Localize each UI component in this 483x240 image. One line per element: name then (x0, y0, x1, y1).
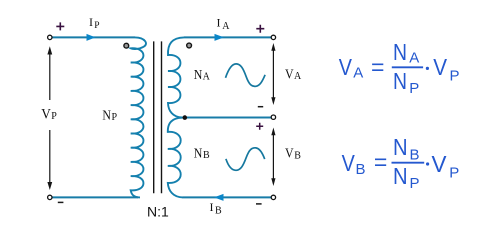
junction dot centre-tap (183, 115, 188, 120)
svg-text:N: N (102, 109, 111, 124)
svg-text:V: V (342, 150, 356, 176)
svg-text:P: P (409, 80, 419, 97)
svg-text:B: B (203, 150, 210, 161)
terminal bottom-left (48, 195, 52, 199)
arrowhead Ib (214, 194, 224, 201)
wire top-left primary lead (53, 36, 136, 38)
polarity dot primary (124, 43, 129, 48)
formula Vb (342, 134, 460, 192)
svg-text:I: I (210, 200, 214, 214)
svg-text:V: V (433, 54, 447, 80)
core line 2 (161, 41, 163, 193)
plus sign top-right (256, 25, 264, 33)
svg-text:N: N (393, 163, 408, 189)
Vb dimension arrow (272, 131, 274, 183)
sine wave B (226, 148, 265, 170)
wire centre-tap lead (182, 117, 272, 119)
formula Va (339, 39, 460, 97)
svg-text:A: A (222, 21, 230, 32)
svg-text:V: V (285, 147, 294, 162)
svg-text:B: B (215, 206, 222, 217)
svg-text:=: = (371, 54, 384, 80)
svg-text:P: P (449, 165, 459, 182)
secondary winding Na (168, 37, 184, 117)
sine wave A (226, 64, 266, 86)
terminal centre-tap (271, 115, 275, 119)
svg-text:V: V (339, 54, 353, 80)
core line 1 (153, 41, 155, 193)
arrowhead Ip (87, 34, 96, 41)
terminal bottom-right (271, 195, 275, 199)
wire bottom-right secondary lead (183, 196, 272, 198)
minus above centre-tap (258, 106, 263, 108)
svg-text:N:1: N:1 (147, 204, 169, 220)
svg-text:P: P (94, 21, 99, 31)
svg-text:A: A (294, 71, 302, 82)
svg-text:A: A (353, 65, 363, 82)
primary winding Np (131, 37, 146, 197)
Va dimension arrow (272, 47, 274, 102)
svg-text:N: N (393, 39, 407, 65)
wire top-right secondary lead (184, 36, 271, 38)
svg-text:V: V (432, 151, 448, 177)
svg-text:I: I (217, 16, 221, 30)
secondary winding Nb (168, 118, 183, 198)
svg-text:P: P (450, 68, 460, 85)
svg-text:B: B (410, 147, 420, 164)
svg-text:N: N (194, 147, 203, 162)
svg-text:V: V (285, 68, 294, 83)
arrowhead Ia (215, 34, 225, 41)
svg-text:N: N (393, 68, 407, 94)
svg-text:I: I (89, 15, 93, 29)
svg-text:B: B (294, 151, 301, 162)
svg-text:B: B (356, 161, 366, 178)
svg-text:=: = (374, 149, 387, 175)
terminal top-left (48, 35, 52, 39)
minus bottom-left (58, 201, 64, 203)
wire bottom-left primary lead (53, 196, 139, 198)
svg-text:N: N (194, 68, 203, 83)
Vp dimension arrow lower (49, 130, 51, 186)
svg-text:V: V (41, 107, 51, 123)
plus below centre-tap (256, 123, 263, 130)
terminal top-right (271, 35, 275, 39)
svg-text:N: N (393, 134, 408, 160)
svg-text:A: A (409, 50, 419, 67)
Vp dimension arrow upper (49, 52, 51, 100)
svg-text:P: P (410, 175, 420, 192)
svg-text:P: P (112, 112, 118, 123)
svg-text:P: P (51, 111, 57, 122)
minus bottom-right (256, 203, 262, 205)
plus sign top-left (56, 22, 64, 30)
polarity dot secondary (187, 43, 192, 48)
svg-text:A: A (203, 72, 211, 83)
